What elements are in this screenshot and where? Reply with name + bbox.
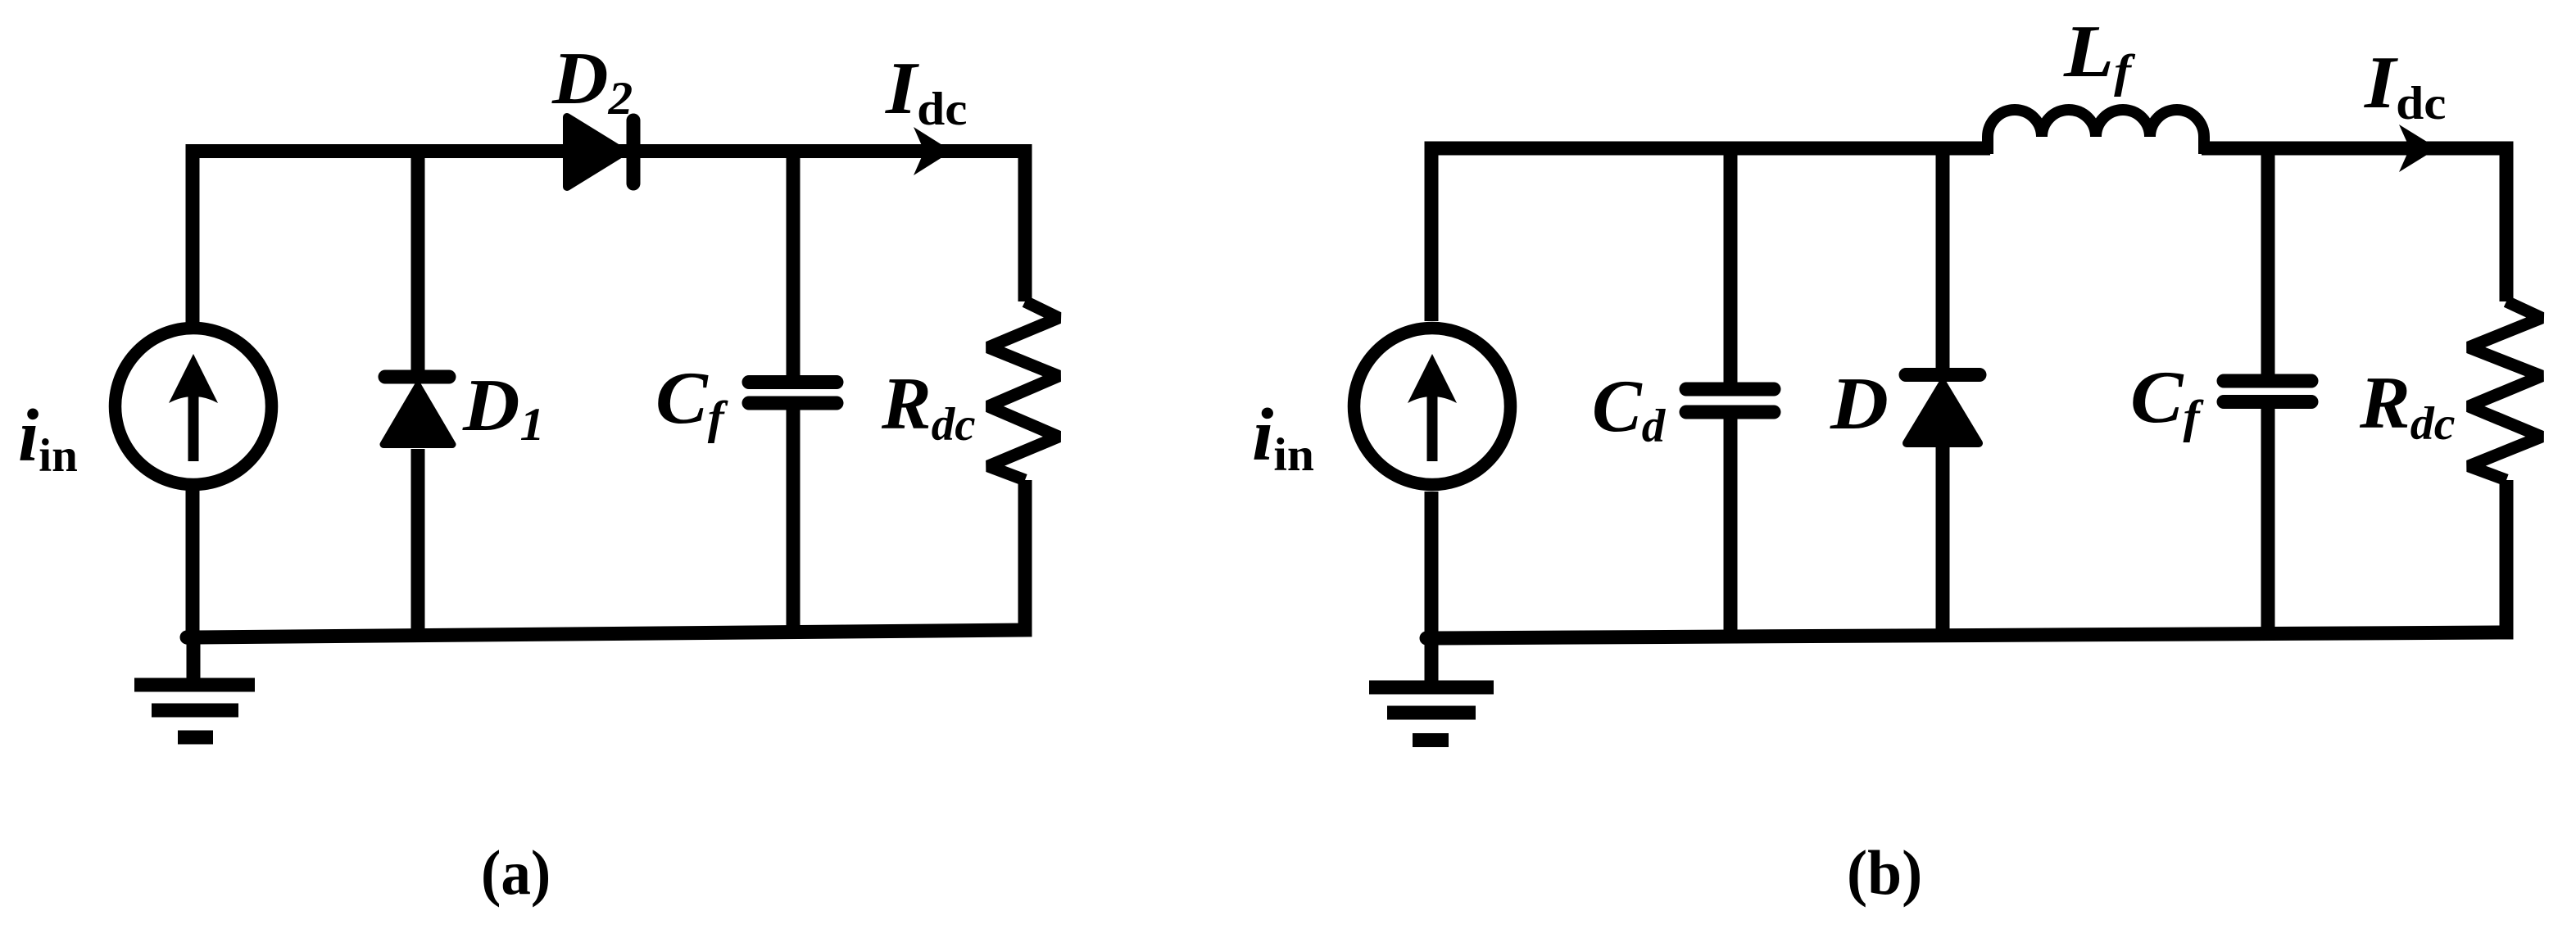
diode D cathode bar — [1906, 368, 1980, 382]
wire: bottom rail left end nub (b) — [1426, 632, 1436, 646]
diode D1 triangle — [383, 386, 452, 445]
wire: capacitor C_f (a) lower lead — [787, 408, 800, 632]
wire: diode D branch upper — [1936, 148, 1950, 368]
current source i_in (a) arrow shaft — [188, 387, 199, 461]
capacitor C_f (b) plate 2 — [2224, 395, 2311, 409]
inductor L_f coil — [1988, 110, 2204, 154]
diode D triangle — [1907, 383, 1979, 443]
ground (b) bar 3 — [1413, 733, 1449, 747]
wire: capacitor C_f (b) upper lead — [2261, 148, 2275, 374]
ground (a) bar 2 — [152, 704, 238, 718]
wire: capacitor C_f (a) upper lead — [787, 151, 800, 377]
wire: diode D branch lower — [1936, 447, 1950, 636]
capacitor C_f (a) plate 2 — [749, 397, 837, 410]
diode D2 cathode bar — [627, 120, 641, 184]
svg-text:(a): (a) — [481, 838, 551, 908]
resistor R_dc (a) zigzag — [988, 301, 1059, 480]
capacitor C_d plate 1 — [1686, 383, 1774, 397]
capacitor C_d plate 2 — [1686, 406, 1774, 419]
wire: capacitor C_d lower lead — [1724, 417, 1738, 637]
current source i_in (b) circle — [1354, 329, 1511, 485]
svg-text:D: D — [1830, 363, 1889, 445]
current source i_in (a) circle — [116, 329, 272, 485]
arrow I_dc (a) — [914, 127, 952, 175]
ground (b) bar 2 — [1387, 706, 1476, 720]
diode D1 cathode bar — [385, 370, 449, 384]
ground (b) bar 1 — [1369, 681, 1494, 695]
capacitor C_f (a) plate 1 — [749, 375, 837, 389]
wire: circuit (b) top rail left of inductor — [1431, 148, 1990, 321]
current source i_in (b) arrow shaft — [1427, 387, 1438, 461]
capacitor C_f (b) plate 1 — [2224, 374, 2311, 388]
diode D2 triangle — [567, 117, 624, 187]
wire: circuit (a) top rail with left and right corners — [193, 152, 1025, 324]
wire: diode D1 branch lower — [411, 449, 425, 634]
current source i_in (b) arrow head — [1408, 354, 1457, 403]
wire: capacitor C_d upper lead — [1724, 148, 1738, 383]
arrow I_dc (b) — [2399, 125, 2438, 172]
ground (a) bar 1 — [134, 678, 255, 692]
svg-text:(b): (b) — [1847, 838, 1922, 908]
wire: bottom rail left end nub (a) — [187, 631, 197, 645]
ground (a) bar 3 — [178, 731, 213, 745]
wire: diode D1 branch upper — [411, 151, 425, 370]
wire: circuit (b) top rail right of inductor — [2202, 148, 2506, 301]
ground (a) stem — [187, 637, 201, 678]
ground (b) stem — [1425, 638, 1439, 681]
wire: capacitor C_f (b) lower lead — [2261, 407, 2275, 633]
current source i_in (a) arrow head — [169, 354, 218, 403]
wire: circuit (b) right branch bottom, bottom rail, left riser — [1431, 480, 2506, 638]
wire: circuit (a) right branch bottom, bottom rail, left riser to source — [193, 480, 1025, 637]
resistor R_dc (b) zigzag — [2469, 301, 2542, 480]
